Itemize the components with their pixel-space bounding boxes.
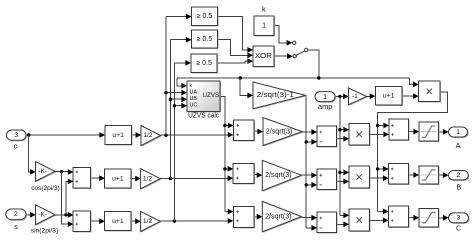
svg-text:c: c	[14, 142, 18, 151]
wire: saturation B to port B	[438, 174, 443, 176]
svg-text:2/sqrt(3): 2/sqrt(3)	[265, 213, 292, 220]
product C	[349, 209, 371, 232]
svg-text:≥ 0.5: ≥ 0.5	[197, 13, 213, 20]
wire: row cos long wire to sum B2	[160, 178, 228, 180]
svg-text:1/2: 1/2	[143, 175, 152, 182]
svg-text:2/sqrt(3)-1: 2/sqrt(3)-1	[257, 92, 294, 99]
outport 3 C	[449, 213, 470, 233]
wire: XOR output to switch	[274, 55, 288, 57]
wire: product wrap-around bus	[378, 92, 448, 211]
gain -1	[349, 88, 368, 106]
svg-text:u+1: u+1	[383, 93, 395, 100]
svg-text:-1: -1	[352, 93, 358, 100]
junction k line at 240	[239, 76, 242, 79]
svg-text:3: 3	[14, 132, 18, 139]
junction amp bus row A	[338, 128, 341, 131]
wire: switch output down	[308, 50, 319, 78]
svg-text:cos(2pi/3): cos(2pi/3)	[31, 185, 60, 192]
arrowheads	[30, 14, 448, 231]
junction sin output	[64, 213, 67, 216]
relay 2 >=0.5	[192, 30, 219, 49]
saturation B	[419, 166, 439, 185]
sum mid B	[233, 163, 255, 184]
sum pm B	[317, 169, 338, 191]
gain 2/sqrt(3)-1	[253, 82, 307, 110]
wire: u+1 c to gain 1/2	[132, 134, 136, 136]
wire: k line horizontal	[177, 77, 409, 79]
sum sin row	[73, 211, 91, 233]
junction minus bus row A	[305, 140, 308, 143]
svg-text:2: 2	[14, 211, 18, 218]
sum pm A	[317, 126, 337, 147]
block u+1 row sin	[105, 212, 133, 232]
wire: relay1 output to XOR	[218, 17, 248, 50]
svg-text:B: B	[456, 183, 461, 192]
wire: triangle A tip to sum	[302, 131, 312, 133]
svg-text:2/sqrt(3): 2/sqrt(3)	[266, 128, 293, 135]
gain sin(2pi/3)	[31, 205, 59, 235]
sum2 C	[389, 206, 410, 228]
svg-text:amp: amp	[318, 102, 333, 111]
wire: sum2 A to saturation A	[408, 131, 413, 133]
svg-text:2: 2	[457, 172, 461, 179]
wire: u+1 cos to gain 1/2	[131, 178, 135, 180]
wire: sum2 C to saturation C	[409, 217, 414, 219]
manual switch input circle xor	[293, 55, 296, 58]
constant k = 1	[254, 7, 275, 37]
junction UB to UZVS	[169, 98, 172, 101]
wire: k branch to 2/sqrt(3)-1 gain	[240, 78, 248, 95]
svg-text:UB: UB	[190, 96, 198, 102]
sum mid C	[233, 206, 255, 228]
wire: saturation A to port A	[438, 131, 443, 133]
junction node c	[27, 133, 30, 136]
gain 2/sqrt(3) row B	[262, 160, 302, 191]
svg-text:A: A	[456, 141, 461, 150]
junction k line at switch	[317, 76, 320, 79]
manual switch output circle	[305, 48, 308, 51]
svg-text:XOR: XOR	[255, 53, 272, 60]
wire: 2/sqrt(3)-1 output bus	[306, 95, 312, 228]
svg-text:k: k	[262, 7, 266, 14]
svg-text:C: C	[456, 224, 461, 233]
svg-text:u+1: u+1	[112, 132, 124, 139]
junction wrap bus row B	[376, 167, 379, 170]
wire: relay2 output to XOR	[218, 40, 248, 56]
wire: sum C pm to product C	[337, 223, 344, 225]
junction amp output	[338, 95, 341, 98]
wire: sum A pm to product A	[336, 138, 343, 140]
wire: amp bus vertical	[340, 96, 344, 215]
gain 1/2 row cos	[141, 169, 162, 190]
wire: k line to product top input	[409, 78, 413, 84]
svg-text:u+1: u+1	[112, 175, 124, 182]
wire: sum mid A output	[254, 130, 259, 132]
gain 1/2 row c	[141, 126, 162, 147]
outport 1 A	[449, 127, 469, 150]
wire: row sin long wire to sum C2	[160, 220, 228, 222]
wire: constant k output to switch	[274, 26, 287, 43]
sum pm C	[317, 212, 338, 234]
saturation A	[419, 122, 439, 142]
wire: cos gain output	[55, 171, 68, 173]
wire: UA bus vertical	[166, 17, 186, 136]
junction UC to UZVS	[173, 104, 176, 107]
outport 1 amp	[315, 92, 336, 112]
svg-text:3: 3	[457, 215, 461, 222]
junction UZVS bus row A	[223, 124, 226, 127]
svg-text:UA: UA	[190, 90, 198, 96]
svg-text:sin(2pi/3): sin(2pi/3)	[31, 228, 59, 235]
wire: sum B pm to product B	[337, 181, 344, 183]
svg-text:≥ 0.5: ≥ 0.5	[197, 36, 213, 43]
svg-text:UC: UC	[190, 103, 198, 109]
junction UA to UZVS	[164, 91, 167, 94]
svg-text:-K-: -K-	[39, 212, 48, 219]
svg-text:-K-: -K-	[39, 168, 48, 175]
outport 2 B	[449, 171, 470, 192]
wire: sin sum to u+1	[90, 220, 99, 222]
sum mid A	[233, 120, 255, 142]
svg-text:≥ 0.5: ≥ 0.5	[196, 60, 212, 67]
junction amp bus row B	[338, 171, 341, 174]
svg-text:1: 1	[323, 93, 327, 100]
svg-text:k: k	[190, 83, 193, 89]
wire: c branch down to cos gain	[29, 135, 31, 172]
wire: gain -1 output	[367, 95, 371, 97]
junction minus bus row B	[305, 183, 308, 186]
wire: u+1 top output	[402, 95, 414, 97]
product B	[349, 166, 370, 189]
svg-text:s: s	[14, 222, 18, 231]
wire: sum mid B output	[254, 174, 258, 176]
wire: sin gain output	[55, 214, 68, 216]
wire: cos output down to sin sum	[62, 172, 68, 224]
sum cos row	[73, 168, 91, 190]
manual switch lever	[296, 51, 305, 55]
junction UB tap	[169, 177, 172, 180]
product top	[419, 81, 441, 103]
junction wrap bus row A	[376, 124, 379, 127]
svg-text:1: 1	[456, 129, 460, 136]
UZVS calc subsystem	[187, 81, 221, 120]
wire: k line to UZVS k input	[177, 78, 182, 86]
svg-text:1/2: 1/2	[143, 132, 152, 139]
logic XOR	[253, 46, 275, 68]
wire: saturation C to port C	[438, 217, 443, 219]
wire: UC bus vertical	[174, 63, 185, 221]
wire: sum2 B to saturation B	[409, 174, 414, 176]
relay 1 >=0.5	[192, 7, 219, 26]
inport 2 s	[6, 209, 27, 231]
junction UC tap	[173, 219, 176, 222]
svg-text:UZVS calc: UZVS calc	[188, 113, 220, 120]
saturation C	[419, 209, 439, 228]
junction UZVS bus row B	[223, 167, 226, 170]
svg-text:UZVS: UZVS	[203, 92, 220, 99]
wire: sin output up to cos sum	[66, 181, 68, 214]
block u+1 top	[375, 87, 403, 107]
wire: UB bus vertical	[170, 40, 185, 179]
gain 1/2 row sin	[141, 211, 162, 232]
inport 3 c	[7, 130, 28, 151]
sum2 A	[389, 119, 409, 141]
gain 2/sqrt(3) row A	[263, 118, 303, 147]
wire: row c long wire to sum A2	[161, 134, 229, 136]
svg-text:2/sqrt(3): 2/sqrt(3)	[265, 172, 292, 179]
wire: amp port output	[335, 95, 344, 97]
wire: UZVS output bus	[220, 96, 228, 211]
wire: triangle C tip to sum	[302, 217, 312, 219]
block u+1 row cos	[105, 169, 133, 189]
svg-text:1/2: 1/2	[143, 218, 152, 225]
wire: product A to sum2 A	[369, 133, 384, 135]
gain cos(2pi/3)	[31, 162, 60, 193]
wire: port s to sin gain	[26, 214, 31, 216]
wire: port c output to u+1	[26, 134, 100, 136]
gain 2/sqrt(3) row C	[262, 201, 302, 232]
block u+1 row c	[105, 126, 133, 146]
sum2 B	[389, 164, 410, 186]
relay 3 >=0.5	[191, 54, 218, 73]
wire: product C to sum2 C	[370, 219, 384, 221]
wire: triangle B tip to sum	[302, 174, 312, 176]
svg-text:1: 1	[262, 22, 266, 29]
wire: product B to sum2 B	[369, 177, 384, 179]
svg-text:u+1: u+1	[112, 218, 124, 225]
manual switch input circle k	[293, 41, 296, 44]
wire: u+1 sin to gain 1/2	[131, 220, 135, 222]
product A	[349, 123, 370, 146]
wire: cos sum to u+1	[90, 177, 99, 179]
wire: relay3 output to XOR	[218, 61, 248, 63]
wire: sum mid C output	[254, 216, 258, 218]
junction cos output	[60, 170, 63, 173]
junction UA tap	[164, 134, 167, 137]
